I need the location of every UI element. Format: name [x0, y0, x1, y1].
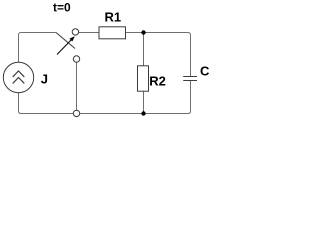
current source chevron upper [13, 71, 25, 77]
capacitor C upper plate [183, 76, 197, 78]
switch arrowhead [69, 36, 74, 41]
svg-text:J: J [41, 72, 48, 87]
capacitor C lower plate [183, 80, 197, 82]
wire: bottom rail from R2 junction to bottom-right corner [144, 81, 191, 114]
resistor R1 box [99, 27, 126, 39]
wire: top rail from switch contact to R1 [79, 32, 100, 34]
switch arrow line [57, 40, 71, 55]
svg-text:t=0: t=0 [53, 1, 71, 15]
svg-text:R2: R2 [149, 73, 166, 88]
wire: switch lower contact down to bottom terminal [76, 62, 78, 110]
current source chevron lower [13, 78, 25, 84]
svg-text:C: C [200, 63, 210, 78]
wire: R2 bottom to bottom rail [143, 91, 145, 113]
wire: top-left rail from corner to switch pole [19, 33, 57, 63]
switch lower contact circle [73, 56, 79, 62]
wire: R2 branch from top junction down to R2 [143, 33, 145, 66]
switch upper contact circle [72, 29, 78, 35]
wire: top rail from R1 to top-right corner down to capacitor [126, 33, 191, 77]
switch bottom terminal circle on bottom rail [73, 110, 79, 116]
wire: left rail below current source to bottom-left corner [19, 93, 74, 114]
current source J circle [3, 62, 33, 92]
svg-text:R1: R1 [105, 10, 122, 25]
wire: bottom rail from switch bottom terminal to R2 junction [80, 113, 144, 115]
switch SW blade [56, 33, 75, 49]
resistor R2 box [138, 66, 149, 91]
node A junction dot at R1/R2/C [141, 30, 145, 34]
node B junction dot at bottom rail [141, 111, 145, 115]
